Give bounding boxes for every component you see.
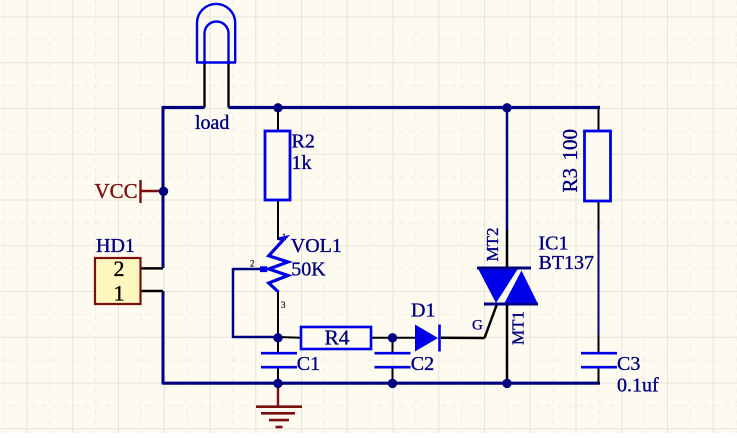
svg-text:C1: C1 (297, 353, 320, 375)
svg-text:D1: D1 (411, 300, 435, 322)
svg-text:50K: 50K (291, 258, 326, 280)
svg-text:C2: C2 (411, 353, 434, 375)
svg-text:0.1uf: 0.1uf (617, 375, 659, 397)
svg-text:G: G (472, 318, 483, 334)
svg-text:3: 3 (281, 300, 286, 310)
svg-text:100: 100 (558, 129, 582, 161)
svg-text:2: 2 (114, 256, 125, 281)
svg-text:1: 1 (282, 232, 287, 242)
svg-text:load: load (195, 112, 229, 134)
svg-text:MT2: MT2 (483, 228, 502, 262)
svg-text:1k: 1k (292, 152, 312, 174)
svg-text:MT1: MT1 (509, 311, 528, 345)
svg-text:HD1: HD1 (96, 235, 135, 257)
svg-text:VOL1: VOL1 (291, 235, 342, 257)
svg-text:BT137: BT137 (539, 252, 595, 274)
svg-text:R4: R4 (324, 325, 349, 349)
svg-text:VCC: VCC (95, 179, 138, 203)
svg-text:1: 1 (114, 281, 125, 306)
svg-text:C3: C3 (617, 353, 640, 375)
svg-text:R3: R3 (558, 168, 582, 193)
svg-text:2: 2 (250, 259, 255, 269)
svg-text:R2: R2 (292, 131, 315, 153)
